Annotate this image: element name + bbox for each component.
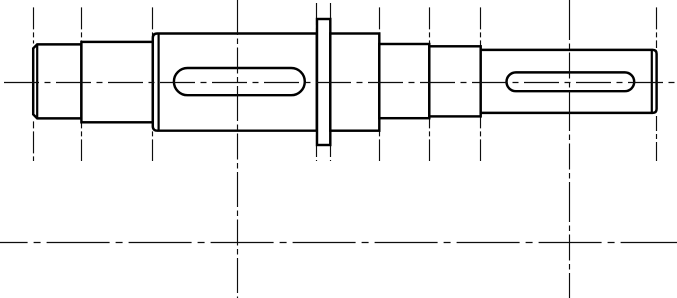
- extension line at flange right x=330: [330, 3, 332, 161]
- chamfer line of section C: [158, 34, 160, 131]
- extension line at right end x=657 (upper part): [656, 7, 658, 48]
- keyway slot 1 (on section C): [174, 68, 305, 95]
- chamfer line of section A: [36, 44, 38, 118]
- extension line at flange left x=317: [316, 3, 318, 161]
- shaft section G: [429, 46, 480, 116]
- extension line at step x=81: [81, 7, 83, 161]
- chamfer line of section H: [651, 50, 653, 113]
- extension line at left end x=33 (lower part): [33, 121, 35, 161]
- extension line at step x=429: [429, 7, 431, 161]
- shaft section A (left journal, chamfered end): [33, 44, 81, 118]
- extension line at step x=153: [152, 7, 154, 161]
- extension line at right end x=657 (lower part): [656, 116, 658, 161]
- vertical centerline x=238 (keyway 1 axis): [237, 0, 239, 298]
- shaft section E: [330, 34, 379, 131]
- extension line at step x=379: [379, 7, 381, 161]
- keyway slot 2 (on section H): [507, 72, 635, 91]
- shaft section B: [81, 42, 152, 122]
- extension line at left end x=33 (upper part): [33, 7, 35, 43]
- shaft section C (main body with keyway): [153, 34, 317, 131]
- bottom horizontal centerline y=242.5: [0, 242, 677, 244]
- horizontal axis centerline y=82: [4, 82, 676, 84]
- extension line at step x=481: [480, 7, 482, 161]
- flange D (shoulder collar): [317, 19, 330, 145]
- vertical centerline x=570 (keyway 2 axis): [569, 0, 571, 298]
- shaft section H (right journal with keyway, rounded end): [481, 50, 657, 113]
- shaft section F: [379, 44, 429, 118]
